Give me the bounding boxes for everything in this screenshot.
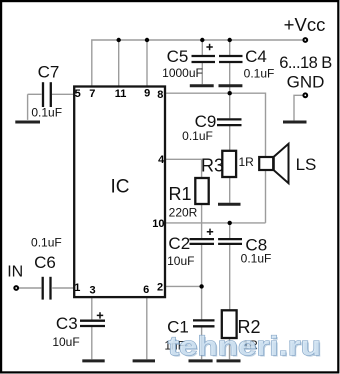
svg-text:C2: C2 xyxy=(168,234,190,253)
svg-text:10: 10 xyxy=(152,218,164,230)
svg-text:IC: IC xyxy=(111,177,130,198)
svg-text:tehneri.ru: tehneri.ru xyxy=(168,331,321,361)
svg-text:1R: 1R xyxy=(239,155,255,169)
svg-text:0.1uF: 0.1uF xyxy=(241,252,272,266)
svg-text:2: 2 xyxy=(157,282,163,294)
svg-text:C7: C7 xyxy=(38,63,60,82)
svg-text:220R: 220R xyxy=(169,206,198,220)
svg-text:9: 9 xyxy=(144,88,150,100)
svg-text:10uF: 10uF xyxy=(167,254,194,268)
svg-text:GND: GND xyxy=(287,73,325,92)
svg-text:10uF: 10uF xyxy=(52,335,79,349)
svg-text:R1: R1 xyxy=(168,184,191,204)
svg-text:0.1uF: 0.1uF xyxy=(244,67,275,81)
svg-text:5: 5 xyxy=(75,88,81,100)
svg-text:6...18 B: 6...18 B xyxy=(279,54,332,72)
svg-text:3: 3 xyxy=(90,285,96,297)
svg-text:7: 7 xyxy=(89,88,95,100)
svg-text:0.1uF: 0.1uF xyxy=(182,129,213,143)
svg-text:1: 1 xyxy=(74,282,80,294)
svg-text:6: 6 xyxy=(143,284,149,296)
svg-text:C6: C6 xyxy=(34,253,56,272)
svg-text:+Vcc: +Vcc xyxy=(284,14,326,35)
svg-text:R3: R3 xyxy=(201,156,224,176)
svg-text:4: 4 xyxy=(158,154,165,166)
svg-text:C3: C3 xyxy=(56,314,78,333)
svg-text:LS: LS xyxy=(296,155,317,174)
svg-text:0.1uF: 0.1uF xyxy=(31,236,62,250)
svg-text:8: 8 xyxy=(157,89,163,101)
svg-text:C4: C4 xyxy=(245,47,267,66)
svg-text:0.1uF: 0.1uF xyxy=(31,106,62,120)
svg-text:1000uF: 1000uF xyxy=(162,66,203,80)
svg-text:11: 11 xyxy=(115,88,127,100)
svg-text:C5: C5 xyxy=(167,47,189,66)
svg-text:IN: IN xyxy=(7,264,23,281)
